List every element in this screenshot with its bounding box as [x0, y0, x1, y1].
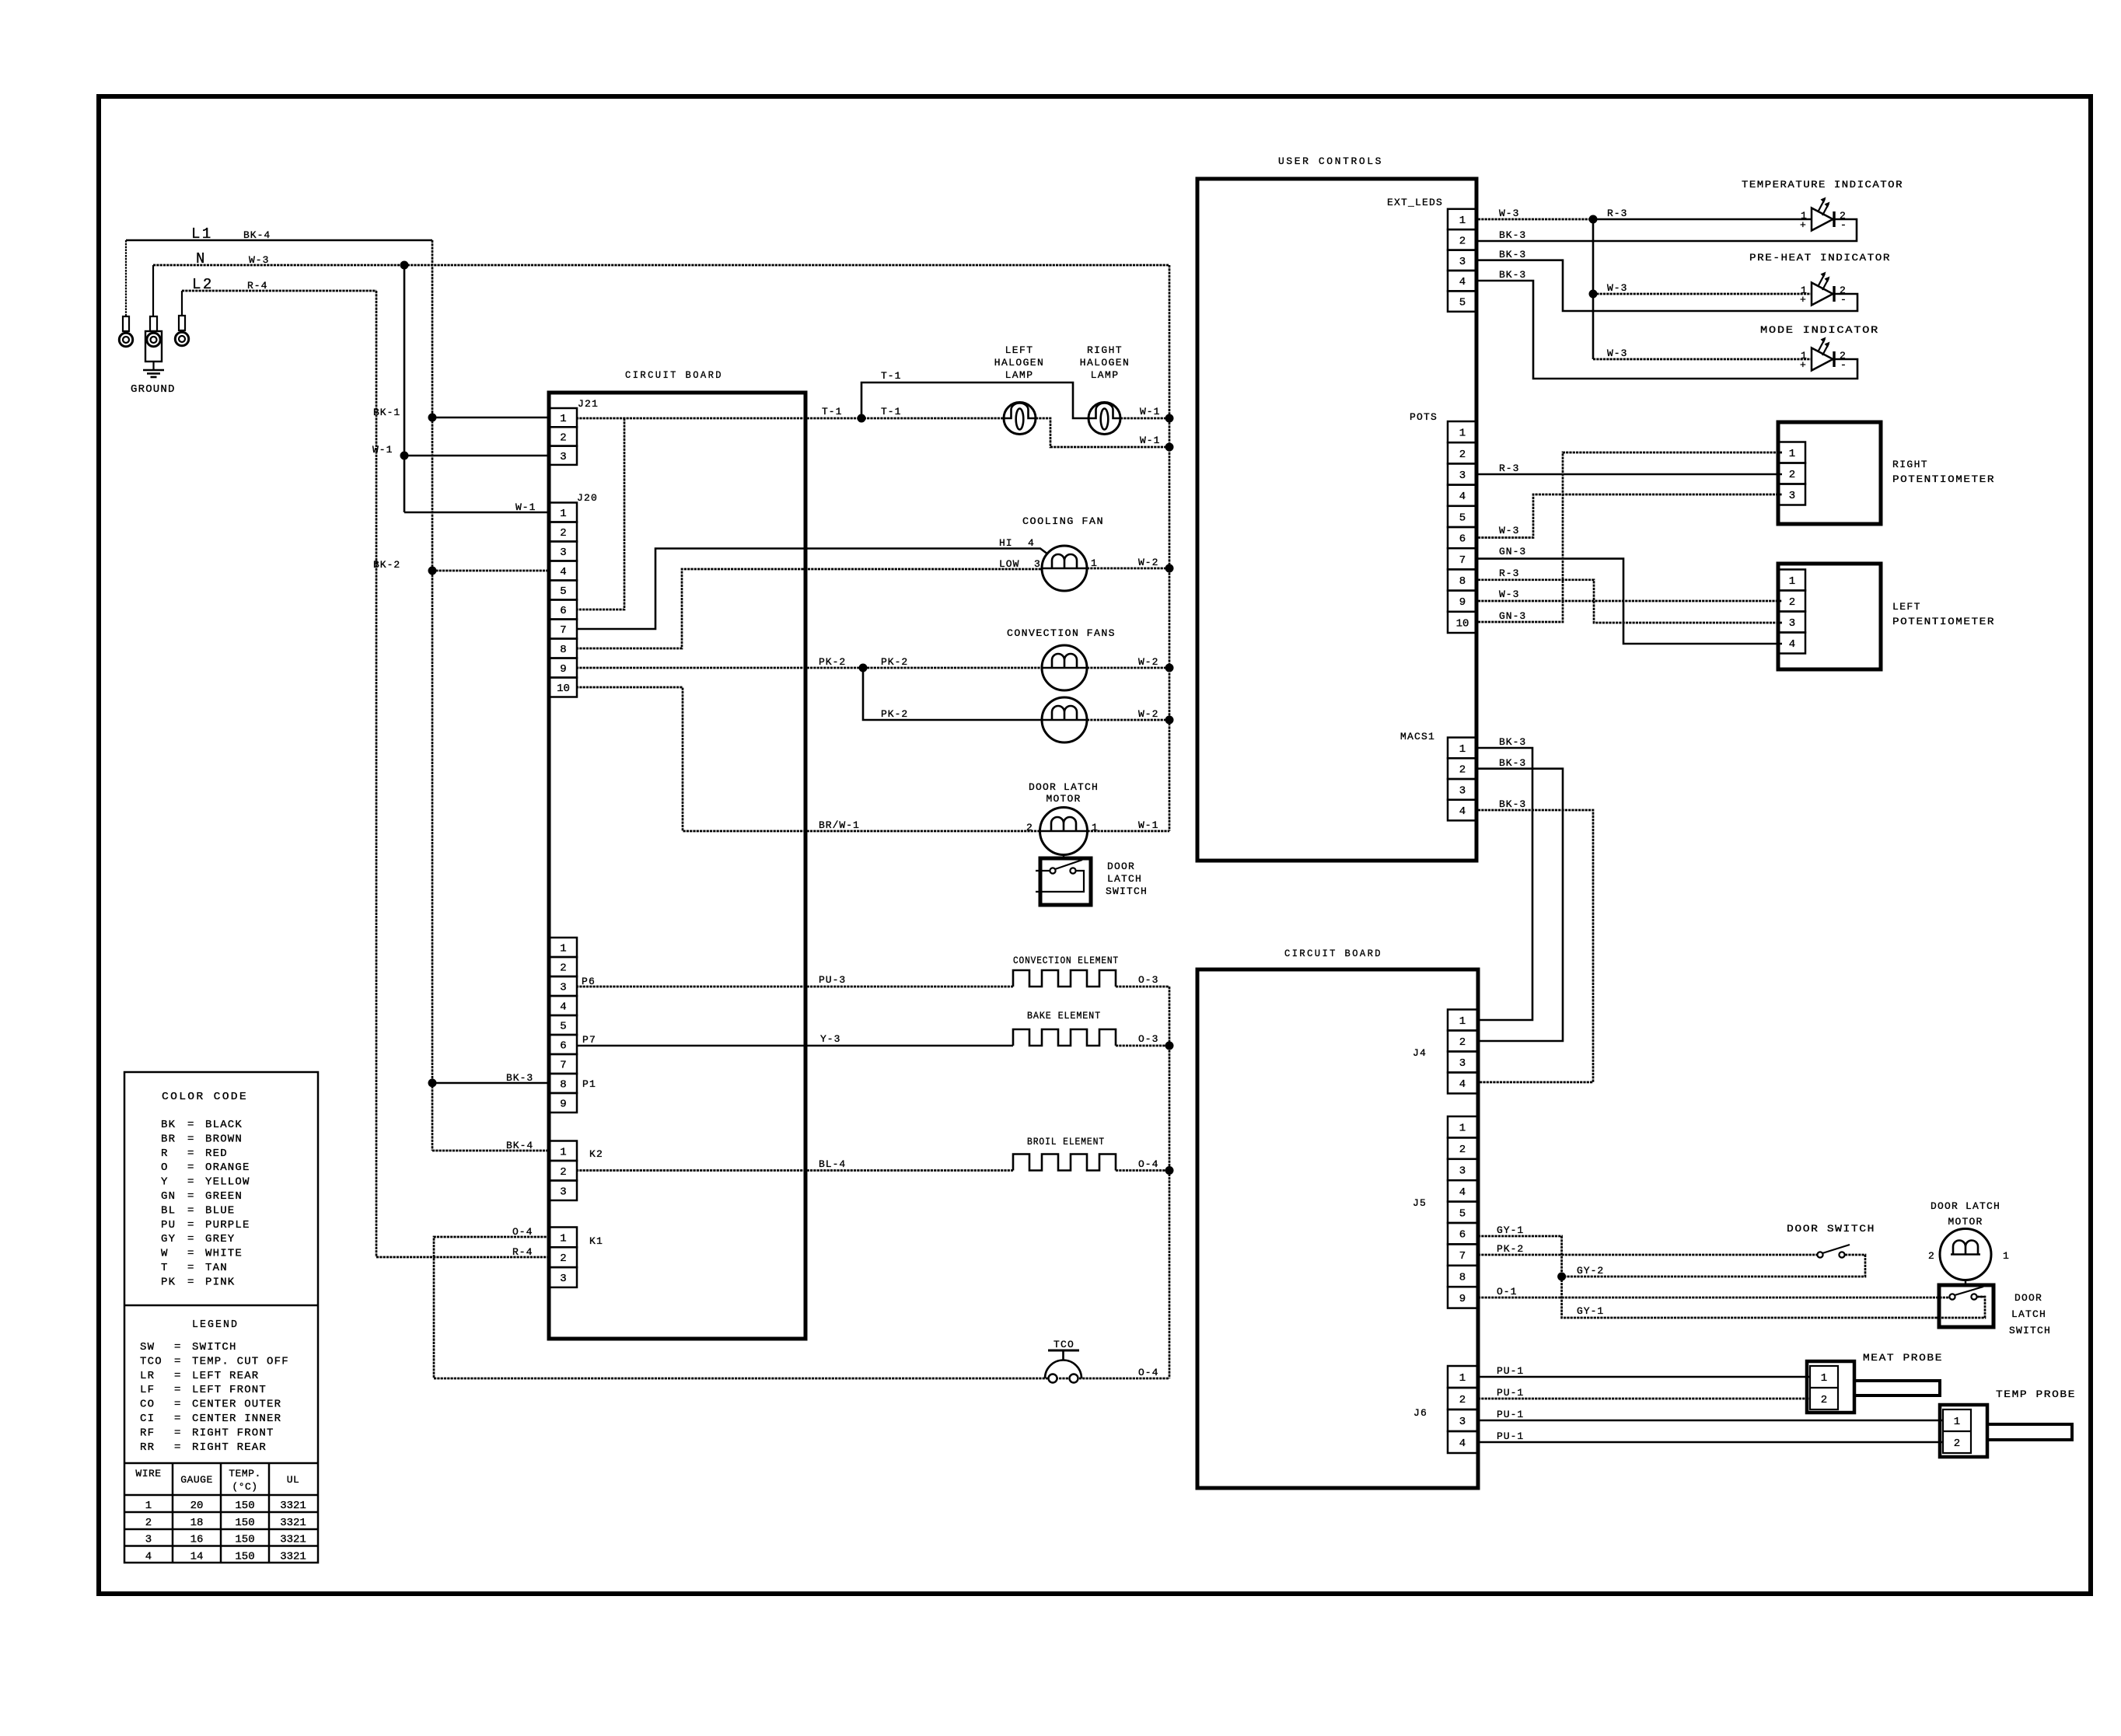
svg-text:8: 8	[560, 644, 566, 656]
connector J20 pin 10	[550, 678, 577, 697]
svg-text:3: 3	[560, 1273, 566, 1285]
svg-text:J21: J21	[578, 398, 599, 410]
svg-text:BROWN: BROWN	[205, 1133, 243, 1145]
connector POTS pin 4	[1448, 485, 1477, 506]
svg-text:BK-3: BK-3	[1499, 798, 1526, 810]
wire L1 horizontal	[126, 239, 432, 242]
svg-text:POTS: POTS	[1410, 411, 1438, 423]
connector J20 pin 7	[550, 620, 577, 639]
junction N to W-1 rail	[400, 261, 409, 270]
connector J20 pin 8	[550, 639, 577, 658]
motor door latch	[1040, 808, 1088, 855]
svg-text:O-1: O-1	[1497, 1286, 1517, 1298]
svg-text:R-3: R-3	[1607, 208, 1627, 219]
svg-text:CIRCUIT BOARD: CIRCUIT BOARD	[625, 369, 723, 381]
connector J6 pin 3	[1448, 1409, 1477, 1431]
svg-text:BK-3: BK-3	[1499, 229, 1526, 241]
svg-text:BK-3: BK-3	[1499, 269, 1526, 281]
connector EXT_LEDS pin 3	[1448, 250, 1477, 271]
svg-text:1: 1	[145, 1500, 152, 1512]
svg-text:=: =	[174, 1384, 182, 1396]
wire LED supply vertical	[1592, 219, 1595, 359]
svg-text:-: -	[1840, 219, 1847, 231]
svg-text:SWITCH: SWITCH	[2009, 1325, 2051, 1336]
motor convection fan 2	[1042, 697, 1087, 742]
svg-text:5: 5	[560, 1021, 566, 1033]
svg-text:PU-3: PU-3	[819, 974, 846, 986]
svg-text:W-3: W-3	[1607, 348, 1627, 359]
svg-text:PK-2: PK-2	[881, 656, 908, 668]
svg-text:150: 150	[235, 1550, 254, 1563]
svg-text:1: 1	[560, 1232, 566, 1245]
svg-text:YELLOW: YELLOW	[205, 1176, 250, 1189]
svg-text:GY-1: GY-1	[1577, 1305, 1604, 1317]
svg-text:2: 2	[560, 1252, 566, 1265]
svg-text:T-1: T-1	[881, 406, 901, 417]
junction GY-2	[1557, 1273, 1566, 1281]
connector J21 pin 1	[550, 408, 577, 427]
svg-text:COOLING FAN: COOLING FAN	[1022, 515, 1104, 527]
connector J4 pin 1	[1448, 1010, 1477, 1031]
svg-text:4: 4	[1459, 276, 1466, 288]
svg-text:GY: GY	[161, 1233, 176, 1245]
svg-text:P7: P7	[582, 1034, 596, 1046]
svg-text:BR/W-1: BR/W-1	[819, 819, 860, 831]
svg-text:CONVECTION ELEMENT: CONVECTION ELEMENT	[1013, 955, 1119, 966]
svg-text:CENTER OUTER: CENTER OUTER	[192, 1399, 281, 1411]
svg-text:MEAT PROBE: MEAT PROBE	[1863, 1352, 1943, 1364]
svg-text:7: 7	[1459, 554, 1466, 567]
svg-text:18: 18	[190, 1517, 204, 1529]
svg-text:TAN: TAN	[205, 1262, 228, 1274]
svg-text:=: =	[174, 1413, 182, 1425]
svg-text:GN-3: GN-3	[1499, 546, 1526, 557]
svg-text:150: 150	[235, 1500, 254, 1512]
svg-text:3: 3	[1459, 1416, 1466, 1428]
svg-text:W-2: W-2	[1138, 708, 1158, 720]
svg-text:+: +	[1800, 294, 1806, 306]
svg-text:5: 5	[1459, 297, 1466, 309]
svg-text:3321: 3321	[280, 1500, 306, 1512]
svg-text:10: 10	[557, 683, 570, 695]
svg-text:2: 2	[1459, 449, 1466, 461]
svg-text:8: 8	[1459, 1272, 1466, 1284]
svg-text:LEGEND: LEGEND	[192, 1319, 239, 1331]
connector POTS pin 6	[1448, 527, 1477, 548]
svg-text:=: =	[187, 1219, 195, 1231]
svg-text:BLUE: BLUE	[205, 1204, 235, 1217]
connector POTS pin 5	[1448, 506, 1477, 527]
svg-text:TCO: TCO	[1054, 1339, 1074, 1350]
svg-text:2: 2	[1026, 822, 1033, 833]
svg-text:=: =	[174, 1441, 182, 1454]
wire left lamp to W rail lower	[1036, 418, 1169, 447]
connector J20 pin 4	[550, 561, 577, 581]
wire gauge table grid	[172, 1463, 174, 1563]
connector K2 pin 2	[550, 1161, 577, 1181]
svg-text:PU-1: PU-1	[1497, 1387, 1524, 1399]
svg-text:WIRE: WIRE	[135, 1468, 161, 1479]
svg-text:1: 1	[1459, 743, 1466, 756]
svg-text:MACS1: MACS1	[1400, 731, 1435, 742]
svg-text:4: 4	[1459, 491, 1466, 503]
svg-text:MOTOR: MOTOR	[1046, 793, 1081, 805]
svg-text:3: 3	[560, 547, 566, 559]
svg-text:W-1: W-1	[372, 444, 393, 456]
tick motor to switch right	[1965, 1280, 1966, 1286]
svg-text:O-3: O-3	[1138, 1033, 1158, 1045]
left potentiometer box	[1778, 564, 1881, 669]
svg-text:POTENTIOMETER: POTENTIOMETER	[1892, 616, 1995, 627]
svg-text:3321: 3321	[280, 1550, 306, 1563]
svg-text:BAKE ELEMENT: BAKE ELEMENT	[1027, 1010, 1101, 1022]
svg-text:PK-2: PK-2	[819, 656, 846, 668]
svg-text:3: 3	[560, 1186, 566, 1198]
door latch switch internal wiring	[1036, 870, 1050, 871]
svg-text:DOOR: DOOR	[2014, 1292, 2042, 1304]
motor convection fan 1	[1042, 645, 1087, 690]
svg-text:20: 20	[190, 1500, 204, 1512]
svg-text:DOOR LATCH: DOOR LATCH	[1029, 781, 1099, 793]
connector J20 pin 1	[550, 503, 577, 522]
connector J5 pin 3	[1448, 1159, 1477, 1180]
svg-text:BL: BL	[161, 1204, 176, 1217]
connector J20 pin 2	[550, 522, 577, 542]
svg-text:W-3: W-3	[1499, 525, 1519, 536]
svg-text:O: O	[161, 1161, 169, 1174]
svg-text:1: 1	[1789, 448, 1795, 460]
LED pre-heat indicator	[1812, 283, 1833, 306]
svg-text:W-2: W-2	[1138, 557, 1158, 568]
door latch switch right contacts and lever	[1949, 1294, 1955, 1299]
wire temperature LED return BK-3	[1478, 219, 1857, 241]
svg-text:GY-1: GY-1	[1497, 1224, 1524, 1236]
svg-text:O-4: O-4	[1138, 1367, 1158, 1378]
svg-text:9: 9	[560, 663, 566, 676]
svg-text:LEFT REAR: LEFT REAR	[192, 1370, 259, 1382]
svg-text:BK-3: BK-3	[1499, 757, 1526, 769]
right potentiometer box	[1778, 422, 1881, 524]
connector J5 pin 7	[1448, 1244, 1477, 1265]
connector EXT_LEDS pin 1	[1448, 209, 1477, 229]
temp probe stick	[1987, 1424, 2072, 1440]
junction PK-2 branch	[859, 664, 868, 672]
svg-text:3: 3	[1459, 1165, 1466, 1178]
svg-text:4: 4	[560, 1001, 566, 1014]
motor door latch right	[1940, 1229, 1991, 1280]
svg-text:3: 3	[560, 451, 566, 463]
svg-text:POTENTIOMETER: POTENTIOMETER	[1892, 473, 1995, 485]
wire W rail vertical (neutral return)	[1169, 265, 1171, 831]
svg-text:1: 1	[560, 1146, 566, 1158]
svg-text:4: 4	[1789, 638, 1795, 651]
svg-text:LEFT FRONT: LEFT FRONT	[192, 1384, 267, 1396]
svg-text:GN-3: GN-3	[1499, 610, 1526, 622]
svg-text:HALOGEN: HALOGEN	[994, 357, 1044, 369]
svg-text:1: 1	[560, 943, 566, 955]
connector P6P7P1 pin 8	[550, 1074, 577, 1093]
connector POTS pin 2	[1448, 442, 1477, 463]
svg-text:T-1: T-1	[881, 370, 901, 382]
svg-text:2: 2	[1459, 1036, 1466, 1049]
svg-text:W-1: W-1	[1140, 406, 1160, 417]
svg-text:TCO: TCO	[140, 1355, 162, 1367]
svg-text:5: 5	[1459, 1207, 1466, 1220]
svg-text:HI: HI	[999, 537, 1013, 549]
wire cooling fan to W rail	[1087, 568, 1169, 570]
wire N horizontal to right rail	[153, 264, 1169, 267]
svg-text:P1: P1	[582, 1078, 596, 1090]
svg-text:2: 2	[1459, 235, 1466, 247]
svg-text:MODE INDICATOR: MODE INDICATOR	[1760, 324, 1879, 336]
svg-text:1: 1	[2003, 1250, 2010, 1262]
svg-text:3321: 3321	[280, 1517, 306, 1529]
connector P6P7P1 pin 5	[550, 1015, 577, 1035]
svg-text:7: 7	[560, 1060, 566, 1072]
connector K2 pin 1	[550, 1141, 577, 1161]
svg-text:2: 2	[1459, 1394, 1466, 1406]
svg-text:8: 8	[560, 1079, 566, 1092]
wire BL-2 from J20 pin8 to cooling fan LOW	[576, 569, 1042, 648]
svg-text:O-4: O-4	[1138, 1158, 1158, 1170]
svg-text:O-3: O-3	[1138, 974, 1158, 986]
svg-text:R-3: R-3	[1499, 463, 1519, 474]
connector LPOT pin 4	[1779, 633, 1805, 654]
svg-text:LEFT: LEFT	[1892, 601, 1921, 613]
svg-text:1: 1	[1821, 1372, 1827, 1385]
connector P6P7P1 pin 4	[550, 996, 577, 1015]
connector J4 pin 4	[1448, 1073, 1477, 1094]
svg-text:R: R	[161, 1147, 169, 1160]
switch door switch	[1817, 1252, 1822, 1257]
svg-text:=: =	[187, 1262, 195, 1274]
wire right lamp to W rail	[1120, 417, 1169, 420]
svg-text:W-3: W-3	[1499, 589, 1519, 600]
svg-text:WHITE: WHITE	[205, 1248, 243, 1260]
svg-text:DOOR: DOOR	[1107, 861, 1135, 872]
junction LED supply	[1589, 215, 1598, 224]
door latch switch contacts and lever	[1050, 868, 1055, 873]
svg-text:-: -	[1840, 294, 1847, 306]
LED mode indicator	[1812, 348, 1833, 371]
svg-text:4: 4	[1459, 1437, 1466, 1450]
svg-text:2: 2	[560, 962, 566, 975]
svg-text:J4: J4	[1413, 1047, 1427, 1059]
svg-text:PU-1: PU-1	[1497, 1409, 1524, 1420]
svg-text:CENTER INNER: CENTER INNER	[192, 1413, 281, 1425]
svg-text:W-1: W-1	[1138, 819, 1158, 831]
svg-text:=: =	[187, 1248, 195, 1260]
resistor broil element	[1013, 1154, 1116, 1171]
svg-text:PU: PU	[161, 1219, 176, 1231]
svg-text:W-3: W-3	[1499, 208, 1519, 219]
svg-text:GREY: GREY	[205, 1233, 235, 1245]
svg-text:3: 3	[1459, 470, 1466, 482]
svg-text:3: 3	[1459, 1057, 1466, 1070]
svg-text:3321: 3321	[280, 1534, 306, 1546]
wire element rail vertical	[1169, 987, 1171, 1378]
svg-text:3: 3	[1789, 617, 1795, 630]
connector LPOT pin 3	[1779, 612, 1805, 633]
svg-text:2: 2	[1789, 596, 1795, 609]
svg-text:6: 6	[560, 605, 566, 617]
svg-text:2: 2	[560, 1166, 566, 1179]
svg-text:2: 2	[1928, 1250, 1935, 1262]
wire PK-2 from J20 pin9 to convection fan 1	[576, 667, 1042, 669]
wire T-1 from J21 pin1 through board	[576, 417, 1004, 420]
svg-text:BLACK: BLACK	[205, 1119, 243, 1131]
svg-text:T-1: T-1	[822, 406, 842, 417]
svg-text:4: 4	[1028, 537, 1035, 549]
svg-text:2: 2	[560, 527, 566, 540]
svg-text:1: 1	[1789, 575, 1795, 588]
svg-text:1: 1	[560, 508, 566, 520]
terminal lug N / ground	[152, 265, 154, 316]
svg-text:6: 6	[1459, 533, 1466, 546]
svg-text:=: =	[187, 1161, 195, 1174]
tick motor to door latch switch	[1063, 855, 1064, 859]
svg-text:2: 2	[1954, 1437, 1960, 1450]
svg-text:150: 150	[235, 1534, 254, 1546]
svg-text:=: =	[187, 1176, 195, 1189]
svg-text:W-2: W-2	[1138, 656, 1158, 668]
connector J5 pin 6	[1448, 1223, 1477, 1244]
svg-text:RF: RF	[140, 1427, 155, 1439]
connector EXT_LEDS pin 5	[1448, 291, 1477, 311]
svg-text:16: 16	[190, 1534, 204, 1546]
svg-text:4: 4	[1459, 1078, 1466, 1091]
svg-text:RR: RR	[140, 1441, 155, 1454]
connector P6P7P1 pin 2	[550, 957, 577, 976]
svg-text:3: 3	[145, 1534, 152, 1546]
svg-text:4: 4	[145, 1550, 152, 1563]
svg-text:2: 2	[1789, 469, 1795, 481]
connector J4 pin 3	[1448, 1052, 1477, 1073]
svg-text:BL-4: BL-4	[819, 1158, 846, 1170]
svg-text:RED: RED	[205, 1147, 228, 1160]
connector J20 pin 9	[550, 658, 577, 678]
motor cooling fan	[1042, 546, 1087, 591]
terminal lug L1	[125, 240, 127, 316]
svg-text:5: 5	[560, 585, 566, 598]
circuit board 1 outline	[549, 393, 805, 1339]
svg-text:+: +	[1800, 359, 1806, 371]
TCO thermal cutoff symbol	[1045, 1361, 1081, 1379]
svg-text:8: 8	[1459, 575, 1466, 588]
svg-text:PRE-HEAT INDICATOR: PRE-HEAT INDICATOR	[1749, 252, 1891, 264]
connector P6P7P1 pin 7	[550, 1054, 577, 1074]
svg-text:UL: UL	[287, 1474, 300, 1486]
svg-text:RIGHT REAR: RIGHT REAR	[192, 1441, 267, 1454]
svg-text:W: W	[161, 1248, 169, 1260]
svg-text:SWITCH: SWITCH	[1106, 885, 1148, 897]
temp probe connector box	[1940, 1405, 1987, 1457]
svg-text:1: 1	[1459, 215, 1466, 227]
wire BK-4 vertical rail from L1	[432, 240, 434, 1151]
connector J5 pin 9	[1448, 1287, 1477, 1308]
svg-text:=: =	[174, 1370, 182, 1382]
svg-text:BR: BR	[161, 1133, 176, 1145]
connector K2 pin 3	[550, 1181, 577, 1201]
svg-text:=: =	[174, 1399, 182, 1411]
svg-text:LATCH: LATCH	[2011, 1308, 2046, 1320]
svg-text:PU-1: PU-1	[1497, 1430, 1524, 1442]
svg-text:CONVECTION FANS: CONVECTION FANS	[1007, 627, 1116, 639]
svg-text:RIGHT: RIGHT	[1087, 344, 1123, 356]
connector MACS1 pin 3	[1448, 779, 1477, 800]
wire BR/W-1 from J20 pin10 to door latch motor	[576, 687, 1040, 831]
svg-text:LATCH: LATCH	[1107, 873, 1142, 885]
svg-text:6: 6	[560, 1040, 566, 1053]
connector MACS1 pin 2	[1448, 758, 1477, 779]
svg-text:SWITCH: SWITCH	[192, 1341, 237, 1354]
svg-text:PK: PK	[161, 1276, 176, 1288]
connector POTS pin 9	[1448, 591, 1477, 612]
meat probe stick	[1854, 1381, 1940, 1395]
connector LPOT pin 2	[1779, 591, 1805, 612]
svg-text:K1: K1	[589, 1235, 603, 1247]
svg-text:=: =	[187, 1276, 195, 1288]
svg-text:-: -	[1840, 359, 1847, 371]
user controls box	[1197, 179, 1476, 861]
svg-text:RIGHT: RIGHT	[1892, 459, 1928, 470]
svg-text:4: 4	[1459, 1186, 1466, 1199]
svg-text:2: 2	[1459, 1144, 1466, 1156]
ground symbol	[152, 362, 154, 369]
svg-text:(°C): (°C)	[232, 1481, 257, 1493]
svg-text:DOOR SWITCH: DOOR SWITCH	[1787, 1223, 1875, 1235]
svg-text:1: 1	[1954, 1416, 1960, 1428]
svg-text:=: =	[174, 1341, 182, 1354]
circuit board 2 outline	[1197, 969, 1478, 1488]
svg-text:9: 9	[1459, 1293, 1466, 1305]
svg-text:CI: CI	[140, 1413, 155, 1425]
svg-text:=: =	[187, 1190, 195, 1203]
svg-text:PK-2: PK-2	[881, 708, 908, 720]
connector K1 pin 1	[550, 1228, 577, 1248]
svg-text:3: 3	[1789, 490, 1795, 502]
svg-text:PU-1: PU-1	[1497, 1365, 1524, 1377]
door latch switch right box	[1939, 1285, 1993, 1327]
svg-text:USER CONTROLS: USER CONTROLS	[1278, 155, 1383, 167]
connector POTS pin 3	[1448, 463, 1477, 484]
meat probe connector box	[1807, 1361, 1854, 1413]
svg-text:=: =	[187, 1233, 195, 1245]
svg-text:LAMP: LAMP	[1091, 369, 1120, 381]
svg-text:LOW: LOW	[999, 558, 1019, 570]
svg-text:1: 1	[1459, 1372, 1466, 1385]
svg-text:1: 1	[560, 413, 566, 425]
svg-text:2: 2	[1821, 1394, 1827, 1406]
wire T-1 upper branch to right lamp	[861, 382, 1088, 418]
svg-text:3: 3	[1034, 558, 1041, 570]
svg-text:ORANGE: ORANGE	[205, 1161, 250, 1174]
terminal lug L2	[181, 291, 183, 316]
svg-text:RIGHT FRONT: RIGHT FRONT	[192, 1427, 274, 1439]
connector K1 pin 3	[550, 1267, 577, 1287]
svg-text:=: =	[174, 1427, 182, 1439]
connector J5 pin 2	[1448, 1137, 1477, 1158]
connector POTS pin 10	[1448, 612, 1477, 633]
svg-text:GY-2: GY-2	[1577, 1265, 1604, 1277]
svg-text:+: +	[1800, 219, 1806, 231]
resistor bake element	[1013, 1029, 1116, 1046]
svg-text:1: 1	[1459, 1123, 1466, 1135]
svg-text:GN: GN	[161, 1190, 176, 1203]
svg-text:COLOR CODE: COLOR CODE	[162, 1091, 248, 1103]
svg-text:GROUND: GROUND	[131, 383, 176, 396]
connector J5 pin 8	[1448, 1266, 1477, 1287]
